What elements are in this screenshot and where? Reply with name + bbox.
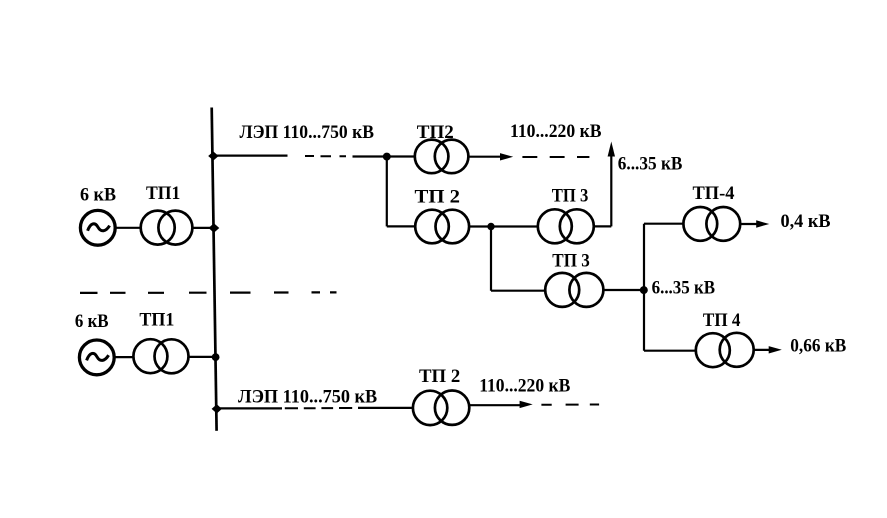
svg-text:ТП 4: ТП 4 <box>703 310 741 331</box>
svg-text:6...35 кВ: 6...35 кВ <box>652 278 716 299</box>
svg-text:110...220 кВ: 110...220 кВ <box>479 375 570 396</box>
svg-text:6...35 кВ: 6...35 кВ <box>618 153 683 174</box>
svg-text:ТП2: ТП2 <box>417 122 454 143</box>
svg-text:ТП 2: ТП 2 <box>419 366 460 387</box>
svg-text:6 кВ: 6 кВ <box>75 311 109 332</box>
svg-text:ТП 2: ТП 2 <box>415 187 461 208</box>
svg-text:110...220 кВ: 110...220 кВ <box>510 121 602 142</box>
svg-text:0,66 кВ: 0,66 кВ <box>790 336 846 357</box>
svg-text:ТП-4: ТП-4 <box>693 183 735 204</box>
svg-text:0,4 кВ: 0,4 кВ <box>781 211 831 232</box>
svg-text:ТП1: ТП1 <box>146 183 180 204</box>
svg-text:ТП1: ТП1 <box>139 310 174 331</box>
svg-text:ЛЭП 110...750 кВ: ЛЭП 110...750 кВ <box>238 386 378 407</box>
svg-text:ЛЭП 110...750 кВ: ЛЭП 110...750 кВ <box>240 122 375 143</box>
svg-text:ТП 3: ТП 3 <box>552 251 590 272</box>
svg-text:ТП 3: ТП 3 <box>552 186 589 207</box>
svg-text:6 кВ: 6 кВ <box>80 184 116 205</box>
